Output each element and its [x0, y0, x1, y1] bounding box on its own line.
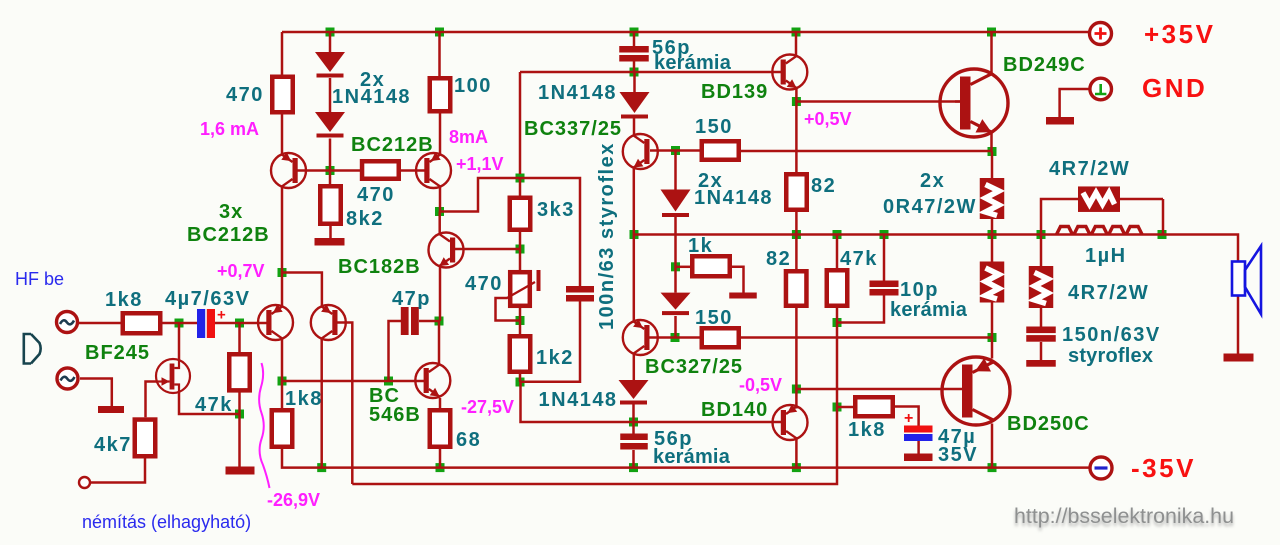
wire 1k right to ground [732, 267, 744, 293]
wire 56p2 bottom lead [632, 450, 635, 468]
svg-text:BD249C: BD249C [1003, 54, 1086, 76]
capacitor 47u/35V [904, 410, 933, 461]
wire y72 line [520, 71, 782, 74]
wire Q1 base [297, 169, 330, 172]
wire input2 to ground [80, 379, 112, 407]
capacitor 56p top [619, 46, 649, 62]
svg-text:1,6 mA: 1,6 mA [200, 119, 259, 139]
wire feedback line [352, 407, 837, 484]
svg-text:BD140: BD140 [701, 399, 768, 421]
transistor BC212B Q1 [271, 152, 306, 188]
wire 1k8b right to 47u [895, 407, 919, 426]
speaker [1232, 246, 1261, 314]
svg-text:2x: 2x [920, 170, 945, 192]
wire BD139 emitter to 82 [795, 102, 798, 173]
capacitor 150n/63V [1026, 327, 1056, 342]
wire 470b to Q2 [401, 169, 426, 172]
wire BD139 emitter down [795, 89, 798, 102]
resistor 1k8 input [123, 313, 161, 333]
wire BC337 emitter down [633, 168, 636, 235]
wire Q2 to 3k3 node [440, 178, 521, 212]
resistor 4k7 [135, 420, 156, 457]
wire BC327 collector down [633, 355, 636, 381]
svg-text:BD139: BD139 [701, 81, 768, 103]
svg-text:1N4148: 1N4148 [539, 389, 618, 411]
wire BC546 emitter down [439, 398, 442, 408]
transistor BC327/25 Q8 [623, 319, 658, 355]
wire diode1 to diode2 [329, 78, 332, 112]
wire Q2 collector down [439, 187, 442, 212]
transistor BC212B Q2 [416, 152, 451, 188]
wire Q4 emitter up [281, 273, 284, 307]
resistor 1k2 [510, 336, 531, 372]
capacitor 56p bottom [620, 434, 648, 450]
wire Q5 base corner [336, 323, 352, 485]
svg-text:1k: 1k [688, 235, 713, 257]
wire 82a bottom lead [795, 212, 798, 235]
svg-text:1N4148: 1N4148 [332, 86, 411, 108]
resistor 470 (Q1 collector load) [272, 77, 293, 113]
svg-text:kerámia: kerámia [654, 52, 732, 74]
svg-text:némítás (elhagyható): némítás (elhagyható) [82, 512, 251, 532]
svg-text:+1,1V: +1,1V [456, 154, 504, 174]
capacitor 4u7/63V [197, 307, 226, 339]
junction 1k diode chain [671, 262, 680, 271]
wire D4 bottom [674, 316, 677, 338]
wire cap to 47k junction [215, 322, 262, 325]
svg-text:http://bsselektronika.hu: http://bsselektronika.hu [1014, 504, 1234, 528]
ground input2 [98, 406, 124, 413]
transistor BC337/25 Q7 [623, 134, 658, 169]
resistor 47k feedback [827, 270, 848, 306]
junction mid rail 10p [880, 230, 889, 239]
wire jfet drain [178, 323, 181, 360]
svg-text:8mA: 8mA [449, 127, 488, 147]
ground GND terminal [1046, 117, 1074, 125]
diode 1N4148 D3 [661, 190, 691, 218]
svg-text:-35V: -35V [1131, 453, 1196, 483]
wire 47u to ground [917, 441, 920, 454]
wire 150b to BD250C collector node [741, 336, 992, 339]
junction Q1 base node [326, 166, 335, 175]
junction BD139 emitter [792, 97, 801, 106]
wire BC337 base node to 150 [676, 149, 700, 152]
junction 47k input bottom [235, 410, 244, 419]
junction 47k feedback bottom [833, 318, 842, 327]
wire Q5 collector down [320, 338, 323, 468]
wire 8k2 top [329, 171, 332, 185]
connector symbol HF input [24, 334, 41, 364]
diode 1N4148 D2 [315, 112, 345, 138]
svg-text:150: 150 [695, 116, 733, 138]
wire speaker feed [1162, 235, 1238, 262]
wire 1k2 top lead [519, 325, 522, 334]
wire D4 top [674, 267, 677, 293]
svg-text:kerámia: kerámia [653, 446, 731, 468]
wire Q5 emitter corner [282, 273, 322, 307]
wire 0R47b top lead [991, 235, 994, 262]
svg-text:BC182B: BC182B [338, 256, 421, 278]
ground speaker [1224, 354, 1254, 362]
wire 4R7 right loop [1120, 199, 1163, 235]
wire boot diode to BC337 [633, 118, 636, 135]
wire BD249C base wire into bar [955, 100, 965, 103]
junction 3k3 top node [516, 174, 525, 183]
junction BD140 collector node [792, 385, 801, 394]
svg-text:82: 82 [766, 248, 791, 270]
resistor 82 lower [786, 271, 807, 306]
wire base node to 470b [330, 169, 360, 172]
wire trimmer wiper loop [496, 298, 521, 321]
svg-text:BF245: BF245 [85, 342, 150, 364]
diode 1N4148 D5 [619, 380, 649, 405]
wire Q3 collector up [438, 212, 441, 234]
wire jfet source down [179, 393, 240, 415]
junction top rail / diode chain [326, 28, 335, 37]
resistor 150 (BC337 base) [702, 141, 739, 160]
junction BC337 base [671, 146, 680, 155]
junction mid rail speaker [1158, 230, 1167, 239]
wire 100 top [438, 32, 441, 76]
wire 47k input top lead [238, 323, 241, 352]
diode 1N4148 D1 [315, 52, 345, 78]
wire 100 to Q2 [439, 114, 442, 155]
junction Q4 collector / base line [278, 377, 287, 386]
wire 47p left [389, 321, 402, 381]
transistor BF245 JFET [156, 359, 190, 393]
ground 150n end bar [1026, 360, 1056, 367]
svg-text:68: 68 [456, 429, 481, 451]
wire Q1 collector down [281, 188, 284, 273]
wire BC327 emitter up [633, 235, 636, 322]
svg-text:100n/63 styroflex: 100n/63 styroflex [596, 142, 618, 330]
wire 150n to end bar [1040, 342, 1043, 360]
wire 3k3 bottom lead [519, 232, 522, 249]
wire +35V rail [282, 31, 1089, 34]
svg-text:8k2: 8k2 [346, 208, 384, 230]
transistor BD140 [773, 404, 808, 440]
junction 1k8 feedback [833, 403, 842, 412]
wire x520 drop [519, 72, 522, 174]
svg-text:+0,7V: +0,7V [217, 261, 265, 281]
junction -35 rail BD140 [792, 463, 801, 472]
wire 150b left [675, 336, 700, 339]
transistor BC182B Q3 [429, 233, 464, 268]
wire 82b bottom to BD140 collector node [795, 308, 798, 389]
svg-text:-0,5V: -0,5V [739, 375, 782, 395]
capacitor 100n/63 styroflex [566, 286, 594, 302]
wire 1k8a top lead [281, 381, 284, 408]
transistor BD250C [942, 357, 1010, 425]
junction BD140 base node [629, 418, 638, 427]
junction mid rail BC337/BC327 [630, 230, 639, 239]
wire diode2 to base node [329, 139, 332, 171]
wire 82b top lead [795, 235, 798, 270]
junction 56p bottom node [630, 68, 639, 77]
wire jfet gate [146, 382, 158, 418]
junction -35 rail 68 [436, 463, 445, 472]
wire trimmer top lead [519, 249, 522, 270]
svg-text:1k8: 1k8 [285, 388, 323, 410]
wire zobel top lead [1040, 235, 1043, 267]
junction top rail / BD249C collector [987, 28, 996, 37]
terminal AC source 2 [57, 368, 78, 389]
wire BD139 base line [796, 100, 960, 103]
svg-text:1k8: 1k8 [105, 289, 143, 311]
wire BD139 collector up [795, 32, 798, 56]
ground 8k2 [315, 238, 345, 246]
junction -35 rail Q5 [317, 463, 326, 472]
wire boot diode top [633, 72, 636, 92]
wire 1k8a bottom to -35 rail [282, 449, 1090, 468]
transistor BC546B Q6 [415, 363, 450, 398]
svg-text:BC327/25: BC327/25 [645, 356, 743, 378]
terminal GND [1090, 78, 1112, 100]
wire left column top [281, 32, 284, 75]
wire D5 to BD140 base node [632, 403, 635, 422]
resistor 1k8 output [855, 397, 893, 416]
capacitor 47p [401, 307, 419, 335]
svg-text:0R47/2W: 0R47/2W [883, 196, 977, 218]
junction mid rail 47k [833, 230, 842, 239]
wire BD250C emitter up [991, 338, 994, 359]
resistor 100 [430, 78, 451, 111]
svg-text:150n/63V: 150n/63V [1062, 324, 1161, 346]
junction 1k2 bottom [516, 378, 525, 387]
svg-text:100: 100 [454, 75, 492, 97]
ground 1k [729, 293, 757, 299]
terminal AC source 1 [57, 312, 78, 333]
wire Q4 collector down [281, 338, 284, 381]
svg-text:470: 470 [226, 84, 264, 106]
junction -35 rail 56p [629, 463, 638, 472]
svg-text:10p: 10p [900, 279, 939, 301]
wire BC327 base [648, 336, 675, 339]
transistor BC212B Q4 [258, 304, 293, 340]
wire D3 bottom [674, 216, 677, 267]
svg-text:kerámia: kerámia [890, 299, 968, 321]
wire styroflex bottom [520, 302, 580, 382]
wire 56p2 top lead [632, 422, 635, 434]
svg-text:+: + [904, 410, 913, 427]
wire diode chain top [329, 32, 332, 52]
junction 47p right [435, 317, 444, 326]
wire 47p node to BC546 collector [438, 321, 441, 364]
wire Q4 base [262, 322, 268, 325]
wire Q3 emitter down [439, 268, 442, 322]
wire zobel res to cap [1040, 308, 1043, 327]
svg-text:+35V: +35V [1144, 19, 1215, 49]
wire BD140 emitter down [795, 437, 798, 468]
svg-text:3k3: 3k3 [537, 199, 575, 221]
terminal +35V [1090, 23, 1112, 45]
resistor 68 [430, 410, 451, 447]
svg-text:1k8: 1k8 [848, 419, 886, 441]
wire 1k8in to junction [163, 322, 198, 325]
wire 47p right [419, 320, 439, 323]
svg-text:1k2: 1k2 [536, 347, 574, 369]
junction mid rail 0R47 [988, 230, 997, 239]
wire 47k input bottom lead [238, 393, 241, 467]
resistor 82 upper [786, 174, 807, 210]
junction -35 rail BD250C [988, 463, 997, 472]
wire BD249C emitter down [990, 132, 993, 152]
resistor 470 (Q1-Q2 base) [362, 161, 399, 179]
wire 150 to BD249C emitter node [741, 150, 992, 153]
wire 8k2 to ground [329, 226, 332, 238]
junction Q2 collector node [435, 207, 444, 216]
resistor 4R7/2W zobel [1029, 266, 1054, 308]
wire 56p bottom lead [633, 62, 636, 73]
junction 47k input top [235, 319, 244, 328]
svg-text:BC212B: BC212B [351, 134, 434, 156]
svg-text:35V: 35V [938, 444, 978, 466]
svg-text:BC337/25: BC337/25 [524, 118, 622, 140]
wire Q3 base [452, 248, 520, 251]
svg-text:1N4148: 1N4148 [538, 82, 617, 104]
transistor BD139 [772, 55, 807, 90]
wire 10p bottom corner [837, 296, 884, 323]
wire gnd terminal lead [1060, 89, 1090, 117]
svg-text:150: 150 [695, 307, 733, 329]
svg-text:HF be: HF be [15, 269, 64, 289]
wire 47k2 top lead [836, 235, 839, 269]
resistor 3k3 [510, 198, 531, 230]
junction diff input [175, 319, 184, 328]
junction emitters Q4 Q5 [278, 268, 287, 277]
wire BD140 collector up [795, 389, 798, 409]
svg-text:3x: 3x [219, 201, 243, 223]
junction top rail / 100 resistor [435, 28, 444, 37]
wire 47k2 node down [836, 323, 839, 408]
wire BD250C base line [796, 388, 964, 391]
junction 47p left bottom [384, 377, 393, 386]
svg-text:+0,5V: +0,5V [804, 109, 852, 129]
svg-text:BC212B: BC212B [187, 224, 270, 246]
svg-text:546B: 546B [369, 404, 421, 426]
svg-text:GND: GND [1142, 73, 1207, 103]
svg-text:82: 82 [811, 175, 836, 197]
capacitor 10p [870, 281, 899, 296]
svg-text:47p: 47p [392, 288, 431, 310]
resistor 8k2 [320, 186, 341, 224]
inductor 1uH [1057, 227, 1143, 235]
transistor BD249C [940, 69, 1008, 137]
svg-text:4R7/2W: 4R7/2W [1068, 282, 1149, 304]
wire 1k2 node down to BD140 base line [521, 382, 634, 422]
terminal -35V [1090, 457, 1112, 479]
svg-text:-26,9V: -26,9V [267, 490, 320, 510]
junction top rail / 56p [630, 28, 639, 37]
wire 4R7 left loop [1041, 199, 1078, 235]
wire base line y381 [282, 380, 425, 383]
svg-text:1N4148: 1N4148 [694, 187, 773, 209]
junction BC327 base [671, 333, 680, 342]
svg-text:47k: 47k [195, 394, 233, 416]
junction mid rail zobel [1037, 230, 1046, 239]
junction mid rail 82 resistors [792, 230, 801, 239]
resistor 0R47/2W upper [980, 178, 1005, 219]
pointer line -26,9V [259, 363, 269, 488]
wire BD140 base line [634, 421, 784, 424]
svg-text:1µH: 1µH [1085, 245, 1127, 267]
svg-text:4µ7/63V: 4µ7/63V [165, 288, 250, 310]
wire 1k left lead [676, 266, 691, 269]
wire trimmer bottom lead [519, 308, 522, 325]
wire 1k8b left lead [837, 406, 853, 409]
resistor 47k input [229, 354, 250, 390]
junction trimmer bottom [516, 316, 525, 325]
wire BD249C collector up [990, 32, 993, 74]
wire BD250C collector down [991, 424, 994, 468]
wire mid rail [634, 233, 1162, 236]
junction BD250C collector node [988, 333, 997, 342]
svg-text:4k7: 4k7 [94, 434, 132, 456]
wire 56p top lead [633, 32, 636, 46]
svg-text:BD250C: BD250C [1007, 413, 1090, 435]
svg-text:styroflex: styroflex [1068, 345, 1153, 367]
resistor 150 (BC327 base) [702, 328, 739, 347]
resistor 0R47/2W lower [980, 262, 1005, 303]
wire 68 bottom lead [439, 449, 442, 468]
wire BC337 base [650, 149, 676, 152]
svg-text:-27,5V: -27,5V [461, 397, 514, 417]
svg-text:470: 470 [465, 273, 503, 295]
svg-text:470: 470 [357, 184, 395, 206]
wire 3k3 top lead [519, 178, 522, 196]
transistor BC212B Q5 [311, 304, 346, 340]
wire D3 top [674, 151, 677, 190]
wire 3k3 node to styroflex corner [520, 178, 580, 286]
junction top rail / BD139 collector [792, 28, 801, 37]
wire 47k2 bottom lead [836, 308, 839, 323]
wire input line [79, 322, 121, 325]
wire 4k7 bottom to terminal [90, 459, 145, 483]
svg-text:4R7/2W: 4R7/2W [1049, 158, 1130, 180]
resistor 1k [692, 256, 730, 276]
wire 0R47b bottom lead [991, 303, 994, 338]
resistor 4R7/2W parallel [1078, 186, 1120, 212]
junction Q3 base / 3k3 bottom [516, 245, 525, 254]
diode 1N4148 D4 [661, 293, 691, 316]
wire 10p top lead [883, 235, 886, 281]
svg-text:47k: 47k [840, 248, 878, 270]
wire 1k2 bottom lead [519, 374, 522, 382]
wire 470 to Q1 [281, 115, 284, 154]
wire 0R47a bottom lead [991, 219, 994, 235]
wire speaker bottom [1237, 296, 1240, 354]
trimmer 470 [507, 270, 541, 306]
junction BD249C emitter [988, 147, 997, 156]
terminal mute switch [79, 477, 90, 488]
diode 1N4148 bootstrap [620, 92, 650, 119]
resistor 1k8 diff [272, 410, 293, 447]
ground 47k input [226, 467, 255, 475]
wire 0R47a top lead [991, 152, 994, 179]
